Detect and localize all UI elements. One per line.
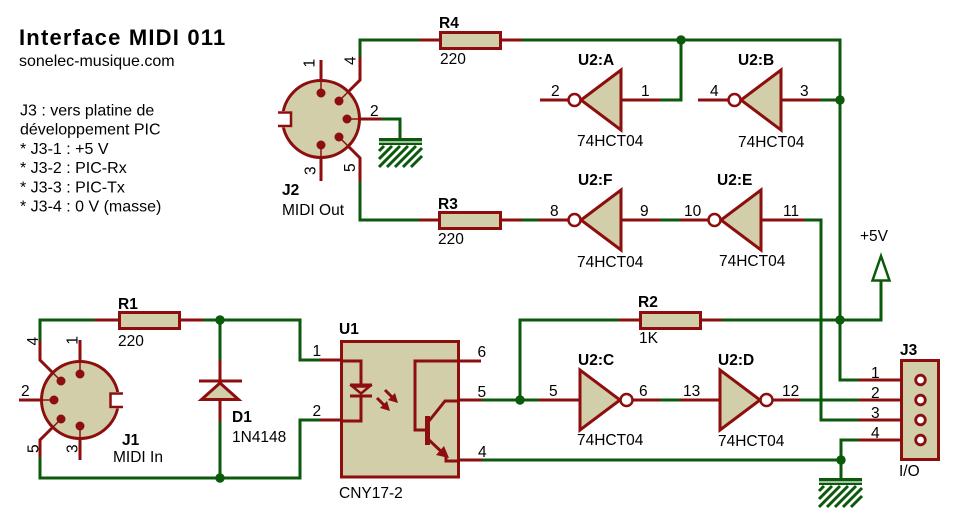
- svg-text:3: 3: [303, 166, 320, 175]
- svg-text:2: 2: [370, 103, 379, 120]
- svg-text:1: 1: [871, 365, 880, 382]
- J1 pin 4: [52, 372, 61, 381]
- wire R2 to +5V: [721, 282, 881, 320]
- svg-text:220: 220: [118, 333, 144, 350]
- J2 pin 5: [339, 137, 348, 146]
- svg-text:R4: R4: [439, 15, 459, 32]
- wire node to R2: [520, 320, 620, 400]
- svg-text:* J3-2 : PIC-Rx: * J3-2 : PIC-Rx: [20, 160, 127, 177]
- junction node bus / U2:B: [835, 95, 844, 104]
- svg-text:D1: D1: [232, 409, 252, 426]
- svg-text:4: 4: [25, 337, 42, 346]
- wire J2 pin5 to R3: [360, 181, 420, 220]
- junction node R1 / D1: [215, 315, 224, 324]
- svg-text:* J3-1 : +5 V: * J3-1 : +5 V: [20, 141, 109, 158]
- op-amp U2:C inverter: [539, 352, 660, 449]
- svg-text:1: 1: [65, 336, 82, 345]
- svg-text:74HCT04: 74HCT04: [577, 254, 644, 271]
- svg-text:MIDI In: MIDI In: [113, 449, 163, 466]
- ground near J2: [379, 140, 422, 167]
- svg-text:U1: U1: [339, 321, 359, 338]
- wire D1 bottom: [219, 420, 222, 478]
- svg-text:I/O: I/O: [899, 463, 920, 480]
- J2 pin 2: [347, 118, 360, 120]
- resistor R1: [95, 296, 203, 350]
- svg-text:1: 1: [302, 59, 319, 68]
- optocoupler U1: [313, 321, 488, 502]
- svg-text:U2:B: U2:B: [738, 52, 774, 69]
- svg-text:74HCT04: 74HCT04: [577, 133, 644, 150]
- diode D1: [199, 360, 286, 446]
- svg-text:4: 4: [343, 56, 360, 65]
- U1 internal LED: [340, 361, 361, 384]
- svg-text:3: 3: [65, 444, 82, 453]
- svg-text:74HCT04: 74HCT04: [738, 134, 805, 151]
- wire U2:C output to U2:D input: [659, 399, 681, 402]
- wire ground node stem: [840, 460, 843, 479]
- svg-text:2: 2: [313, 403, 322, 420]
- wire R3 to U2:F output: [521, 219, 539, 222]
- svg-text:développement PIC: développement PIC: [20, 122, 161, 139]
- junction node U1 pin5 / R2: [515, 395, 524, 404]
- J3 pin 4 pad: [916, 435, 926, 445]
- J3 pin 3 pad: [916, 415, 926, 425]
- wire D1 top: [219, 320, 222, 361]
- wire U2:A input to top wire: [660, 40, 681, 100]
- svg-text:U2:D: U2:D: [718, 352, 754, 369]
- resistor R3: [419, 196, 522, 248]
- svg-text:1: 1: [641, 83, 650, 100]
- resistor R4: [419, 15, 522, 68]
- svg-text:1: 1: [313, 343, 322, 360]
- resistor R2: [619, 294, 722, 347]
- svg-text:R3: R3: [438, 196, 458, 213]
- svg-text:CNY17-2: CNY17-2: [339, 485, 403, 502]
- svg-text:6: 6: [639, 383, 648, 400]
- J1 pin 2: [41, 399, 54, 401]
- svg-text:8: 8: [550, 203, 559, 220]
- svg-text:2: 2: [871, 385, 880, 402]
- wire J2 pin2 to ground: [381, 119, 400, 139]
- wire J1 pin5 bottom to U1 pin2: [40, 420, 321, 478]
- op-amp U2:B inverter: [698, 52, 820, 151]
- svg-text:1K: 1K: [639, 330, 659, 347]
- svg-text:4: 4: [710, 83, 719, 100]
- ground near J3: [819, 480, 862, 507]
- svg-text:R2: R2: [638, 294, 658, 311]
- J2 pin 4: [339, 92, 348, 101]
- svg-text:U2:F: U2:F: [578, 172, 612, 189]
- svg-text:3: 3: [871, 405, 880, 422]
- svg-text:6: 6: [478, 344, 487, 361]
- wire J1 pin4 to R1: [40, 320, 96, 341]
- J1 pin 5: [52, 419, 61, 428]
- op-amp U2:A inverter: [540, 52, 660, 150]
- junction node ground: [836, 455, 845, 464]
- wire U2:E input to J3 pin3: [804, 220, 859, 420]
- connector J3 I/O: [859, 342, 939, 480]
- wire U2:D output to J3 pin2: [800, 399, 859, 402]
- svg-text:sonelec-musique.com: sonelec-musique.com: [19, 53, 175, 70]
- wire ground node to J3 pin4: [841, 440, 859, 460]
- op-amp U2:D inverter: [680, 352, 800, 450]
- connector J1 MIDI In: [19, 336, 163, 466]
- svg-text:U2:E: U2:E: [717, 172, 752, 189]
- svg-text:12: 12: [782, 383, 799, 400]
- junction node D1 / bottom wire: [215, 473, 224, 482]
- svg-text:J2: J2: [282, 182, 299, 199]
- svg-text:4: 4: [871, 425, 880, 442]
- svg-text:MIDI Out: MIDI Out: [282, 202, 345, 219]
- svg-text:220: 220: [440, 51, 466, 68]
- svg-text:* J3-3 : PIC-Tx: * J3-3 : PIC-Tx: [20, 179, 125, 196]
- svg-text:220: 220: [438, 231, 464, 248]
- svg-text:74HCT04: 74HCT04: [577, 432, 644, 449]
- op-amp U2:F inverter: [539, 172, 660, 271]
- svg-text:5: 5: [478, 384, 487, 401]
- U1 light arrows: [385, 390, 393, 398]
- wire J2 pin4 to R4: [360, 40, 420, 57]
- svg-text:R1: R1: [118, 296, 138, 313]
- svg-text:11: 11: [783, 203, 799, 220]
- svg-text:10: 10: [684, 203, 702, 220]
- J1 pin 3: [79, 426, 81, 439]
- svg-text:3: 3: [800, 83, 809, 100]
- junction node top wire / U2:A: [676, 35, 685, 44]
- J2 pin 3: [320, 145, 322, 158]
- svg-text:9: 9: [640, 203, 649, 220]
- wire U1 pin5 to U2:C input: [481, 399, 539, 402]
- svg-text:74HCT04: 74HCT04: [719, 253, 786, 270]
- svg-text:J3: J3: [900, 342, 918, 359]
- wire U2:B input to bus: [820, 99, 840, 102]
- svg-text:Interface MIDI 011: Interface MIDI 011: [19, 25, 226, 50]
- J1 pin 1: [79, 361, 81, 374]
- op-amp U2:E inverter: [680, 172, 804, 270]
- svg-text:5: 5: [549, 383, 558, 400]
- svg-text:J1: J1: [122, 432, 140, 449]
- svg-text:J3 : vers platine de: J3 : vers platine de: [20, 103, 154, 120]
- svg-text:5: 5: [26, 444, 43, 453]
- power +5V symbol: [860, 228, 890, 281]
- svg-text:2: 2: [551, 83, 560, 100]
- J2 pin 1: [320, 80, 322, 93]
- svg-text:1N4148: 1N4148: [232, 429, 286, 446]
- svg-text:13: 13: [683, 383, 700, 400]
- svg-text:2: 2: [21, 383, 30, 400]
- svg-text:* J3-4 : 0 V (masse): * J3-4 : 0 V (masse): [20, 199, 161, 216]
- svg-text:U2:C: U2:C: [578, 352, 614, 369]
- wire U2:F input to U2:E output: [660, 219, 680, 222]
- wire R4 to +5V bus and down to J3 pin1: [521, 40, 859, 380]
- svg-text:5: 5: [342, 163, 359, 172]
- svg-text:U2:A: U2:A: [578, 52, 614, 69]
- wire U1 pin4 to ground node: [481, 459, 841, 462]
- svg-text:74HCT04: 74HCT04: [718, 433, 785, 450]
- svg-text:4: 4: [478, 444, 487, 461]
- J3 pin 1 pad: [916, 375, 926, 385]
- wire R1 to U1 pin1: [202, 320, 321, 360]
- J3 pin 2 pad: [916, 395, 926, 405]
- U1 internal phototransistor: [415, 361, 460, 430]
- svg-text:+5V: +5V: [860, 228, 889, 245]
- connector J2 MIDI Out: [276, 56, 381, 219]
- junction node bus / +5V rail: [835, 315, 844, 324]
